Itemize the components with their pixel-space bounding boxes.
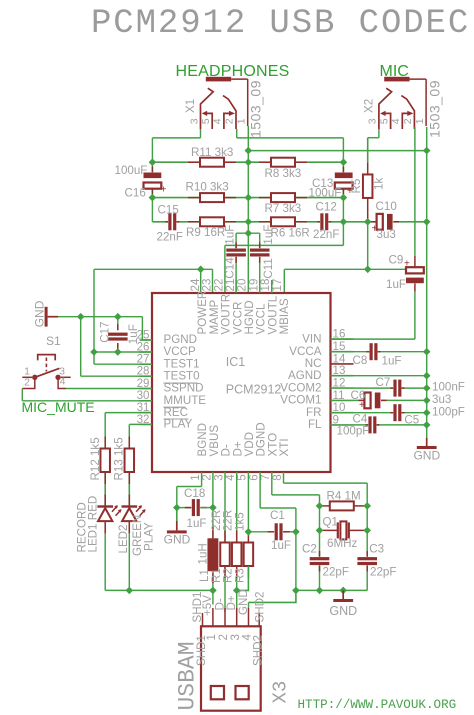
svg-text:GND: GND [237, 589, 250, 615]
svg-text:TEST0: TEST0 [164, 369, 200, 382]
svg-text:C14: C14 [223, 257, 236, 279]
svg-text:2: 2 [402, 118, 414, 124]
svg-text:VCOM2: VCOM2 [280, 381, 321, 394]
svg-text:MIC_MUTE: MIC_MUTE [22, 399, 95, 415]
svg-text:1503_09: 1503_09 [248, 80, 264, 138]
svg-text:+: + [404, 258, 410, 269]
svg-text:1uF: 1uF [262, 225, 275, 245]
svg-text:1: 1 [414, 118, 426, 124]
svg-text:+5V: +5V [201, 595, 214, 616]
svg-text:3: 3 [367, 118, 379, 124]
svg-text:C7: C7 [376, 376, 391, 389]
svg-text:R3: R3 [233, 568, 246, 583]
svg-text:PCM2912 USB CODEC: PCM2912 USB CODEC [91, 5, 470, 43]
svg-text:+: + [161, 185, 167, 196]
svg-text:LED1 RED: LED1 RED [87, 496, 100, 553]
svg-text:GND: GND [164, 533, 191, 547]
svg-text:FL: FL [308, 418, 322, 431]
svg-text:PCM2912: PCM2912 [226, 383, 282, 397]
svg-text:GND: GND [329, 604, 357, 618]
svg-text:1uF: 1uF [382, 354, 402, 367]
svg-text:C8: C8 [353, 354, 368, 367]
svg-text:C11: C11 [262, 258, 275, 278]
svg-text:3u3: 3u3 [377, 228, 396, 241]
svg-text:C15: C15 [158, 203, 179, 216]
svg-text:R9 16R: R9 16R [186, 226, 225, 239]
svg-text:13: 13 [333, 364, 346, 377]
svg-text:1uF: 1uF [271, 539, 291, 552]
svg-text:X2: X2 [362, 99, 375, 113]
svg-text:11: 11 [333, 389, 345, 402]
svg-text:1uF: 1uF [127, 324, 140, 344]
svg-text:100uF: 100uF [309, 187, 342, 200]
svg-text:R13 1k5: R13 1k5 [113, 437, 126, 480]
svg-text:SHD2: SHD2 [254, 592, 267, 623]
svg-text:100pF: 100pF [337, 425, 370, 438]
svg-text:3: 3 [188, 118, 200, 124]
svg-text:R11 3k3: R11 3k3 [191, 146, 233, 159]
svg-text:VIN: VIN [302, 332, 321, 345]
svg-text:R4 1M: R4 1M [327, 489, 361, 502]
svg-text:4: 4 [390, 118, 402, 124]
svg-text:1uF: 1uF [223, 225, 236, 245]
svg-text:USBAM: USBAM [174, 641, 200, 710]
svg-text:R7 3k3: R7 3k3 [265, 202, 302, 215]
svg-text:6MHz: 6MHz [327, 537, 357, 550]
svg-text:2: 2 [224, 118, 236, 124]
svg-text:AGND: AGND [288, 369, 322, 382]
svg-text:22nF: 22nF [313, 228, 339, 241]
svg-text:GND: GND [413, 448, 440, 462]
svg-text:15: 15 [333, 340, 346, 353]
svg-text:C17: C17 [98, 322, 111, 343]
svg-text:100uF: 100uF [115, 164, 148, 177]
svg-text:SHD2: SHD2 [251, 635, 264, 666]
svg-text:HEADPHONES: HEADPHONES [176, 63, 290, 80]
svg-text:17: 17 [271, 279, 284, 292]
svg-text:R6 16R: R6 16R [271, 227, 310, 240]
svg-text:3u3: 3u3 [432, 393, 451, 406]
svg-text:22pF: 22pF [370, 565, 396, 578]
svg-text:VCOM1: VCOM1 [280, 394, 321, 407]
svg-text:1503_09: 1503_09 [427, 80, 443, 138]
svg-text:MBIAS: MBIAS [278, 298, 291, 334]
svg-text:8: 8 [271, 474, 284, 480]
svg-text:C3: C3 [369, 543, 384, 556]
svg-text:C1: C1 [270, 509, 285, 522]
svg-text:R12 1k5: R12 1k5 [89, 437, 102, 480]
svg-text:XTI: XTI [278, 438, 291, 456]
svg-text:1uF: 1uF [386, 278, 406, 291]
svg-text:+: + [372, 223, 378, 234]
svg-text:4: 4 [60, 376, 66, 388]
svg-text:HTTP://WWW.PAVOUK.ORG: HTTP://WWW.PAVOUK.ORG [298, 698, 457, 712]
svg-text:VCCP: VCCP [164, 345, 196, 358]
svg-text:100nF: 100nF [432, 381, 465, 394]
svg-text:VCCA: VCCA [289, 345, 321, 358]
svg-text:+: + [359, 400, 365, 411]
svg-text:Q1: Q1 [323, 515, 338, 528]
svg-text:FR: FR [306, 406, 321, 419]
svg-text:16: 16 [333, 328, 346, 341]
svg-text:10: 10 [333, 401, 346, 414]
svg-text:1k: 1k [373, 178, 386, 190]
svg-text:C18: C18 [184, 487, 205, 500]
svg-text:R5: R5 [350, 179, 363, 194]
svg-text:PLAY: PLAY [164, 418, 193, 431]
svg-text:5: 5 [378, 118, 390, 124]
svg-text:22pF: 22pF [323, 565, 349, 578]
svg-text:C2: C2 [302, 543, 317, 556]
svg-text:SSPND: SSPND [164, 382, 204, 395]
svg-text:LED2: LED2 [117, 524, 130, 553]
svg-text:C16: C16 [125, 187, 146, 200]
svg-text:R8 3k3: R8 3k3 [265, 167, 302, 180]
svg-text:PLAY: PLAY [142, 522, 155, 551]
svg-text:C9: C9 [389, 253, 404, 266]
svg-text:1: 1 [236, 118, 248, 124]
svg-text:22nF: 22nF [157, 231, 183, 244]
svg-text:C12: C12 [316, 201, 337, 214]
svg-text:X1: X1 [184, 99, 197, 113]
svg-text:1uH: 1uH [197, 543, 210, 564]
svg-text:2: 2 [24, 376, 30, 388]
svg-text:100pF: 100pF [432, 405, 465, 418]
svg-text:X3: X3 [270, 681, 292, 704]
svg-text:R10 3k3: R10 3k3 [186, 181, 229, 194]
svg-text:4: 4 [212, 118, 224, 124]
svg-text:S1: S1 [46, 334, 61, 348]
svg-text:1k5: 1k5 [233, 512, 246, 531]
svg-text:12: 12 [333, 377, 346, 390]
svg-text:IC1: IC1 [226, 355, 246, 369]
svg-text:5: 5 [200, 118, 212, 124]
svg-text:1uF: 1uF [187, 517, 207, 530]
svg-text:GND: GND [33, 300, 47, 327]
svg-text:C10: C10 [376, 200, 397, 213]
